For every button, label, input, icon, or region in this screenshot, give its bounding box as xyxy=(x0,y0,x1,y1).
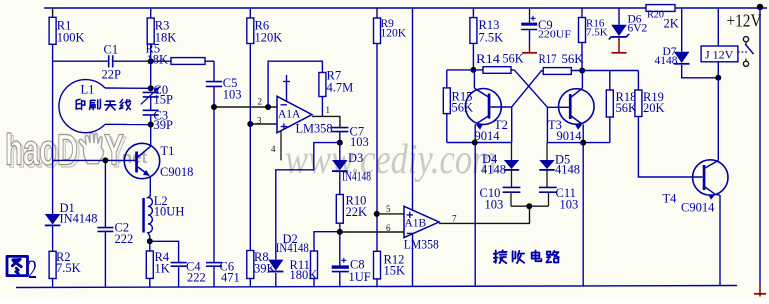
svg-text:103: 103 xyxy=(560,198,579,212)
svg-text:7.5K: 7.5K xyxy=(586,27,608,39)
svg-text:4: 4 xyxy=(271,144,276,154)
svg-text:7: 7 xyxy=(452,214,457,224)
svg-text:5: 5 xyxy=(386,204,391,214)
svg-text:7.5K: 7.5K xyxy=(479,31,504,45)
svg-text:2K: 2K xyxy=(664,17,679,31)
svg-text:1UF: 1UF xyxy=(349,270,371,284)
svg-text:3: 3 xyxy=(257,116,262,126)
svg-text:4.7M: 4.7M xyxy=(327,81,354,95)
svg-text:6V2: 6V2 xyxy=(628,23,648,35)
svg-text:56K: 56K xyxy=(616,101,638,115)
svg-text:222: 222 xyxy=(187,271,206,285)
svg-text:100K: 100K xyxy=(57,31,85,45)
svg-text:T4: T4 xyxy=(663,192,678,206)
svg-text:J 12V: J 12V xyxy=(705,48,734,62)
svg-text:IN4148: IN4148 xyxy=(60,212,98,226)
svg-text:4148: 4148 xyxy=(481,163,506,177)
svg-text:IN4148: IN4148 xyxy=(342,170,371,184)
svg-text:18K: 18K xyxy=(147,53,169,67)
svg-text:haoD: haoD xyxy=(5,126,78,175)
svg-text:T1: T1 xyxy=(161,144,175,158)
svg-text:4148: 4148 xyxy=(555,163,580,177)
svg-text:LM358: LM358 xyxy=(296,122,333,136)
svg-text:222: 222 xyxy=(115,232,134,246)
svg-text:471: 471 xyxy=(221,271,240,285)
svg-text:L1: L1 xyxy=(81,83,95,97)
svg-text:120K: 120K xyxy=(381,28,407,40)
svg-text:9014: 9014 xyxy=(475,129,501,143)
svg-text:56K: 56K xyxy=(503,52,524,66)
svg-text:103: 103 xyxy=(223,88,242,102)
svg-text:1: 1 xyxy=(326,105,331,115)
svg-text:.net: .net xyxy=(117,148,148,167)
svg-text:56K: 56K xyxy=(562,52,584,66)
svg-text:15K: 15K xyxy=(384,264,406,278)
svg-text:www.cediy.com: www.cediy.com xyxy=(285,137,497,183)
svg-text:R17: R17 xyxy=(539,52,557,66)
svg-text:103: 103 xyxy=(350,135,369,149)
svg-text:C1: C1 xyxy=(104,43,119,57)
svg-text:6: 6 xyxy=(386,223,391,233)
svg-text:2: 2 xyxy=(28,255,37,284)
svg-text:10UH: 10UH xyxy=(154,205,185,219)
svg-text:D3: D3 xyxy=(348,151,363,165)
svg-text:120K: 120K xyxy=(255,31,283,45)
svg-text:+12V: +12V xyxy=(727,11,762,31)
svg-text:220UF: 220UF xyxy=(538,30,571,41)
svg-text:1K: 1K xyxy=(155,262,170,276)
svg-text:56K: 56K xyxy=(452,101,474,115)
svg-text:22K: 22K xyxy=(346,205,368,219)
svg-text:LM358: LM358 xyxy=(404,238,439,252)
svg-text:9014: 9014 xyxy=(557,129,583,143)
svg-text:103: 103 xyxy=(485,198,504,212)
svg-text:39P: 39P xyxy=(154,118,174,132)
svg-text:15P: 15P xyxy=(154,93,174,107)
svg-text:IN4148: IN4148 xyxy=(276,241,309,255)
svg-text:22P: 22P xyxy=(102,68,122,82)
svg-text:180K: 180K xyxy=(290,268,318,282)
svg-text:C9014: C9014 xyxy=(681,201,715,215)
svg-text:A1B: A1B xyxy=(405,218,427,230)
svg-text:7.5K: 7.5K xyxy=(56,261,81,275)
svg-text:A1A: A1A xyxy=(278,108,301,120)
svg-text:4148: 4148 xyxy=(655,55,678,67)
svg-text:R14: R14 xyxy=(476,52,501,66)
svg-text:2: 2 xyxy=(258,97,263,107)
svg-text:C9018: C9018 xyxy=(160,165,193,179)
svg-text:20K: 20K xyxy=(643,101,665,115)
svg-text:R20: R20 xyxy=(647,9,664,21)
